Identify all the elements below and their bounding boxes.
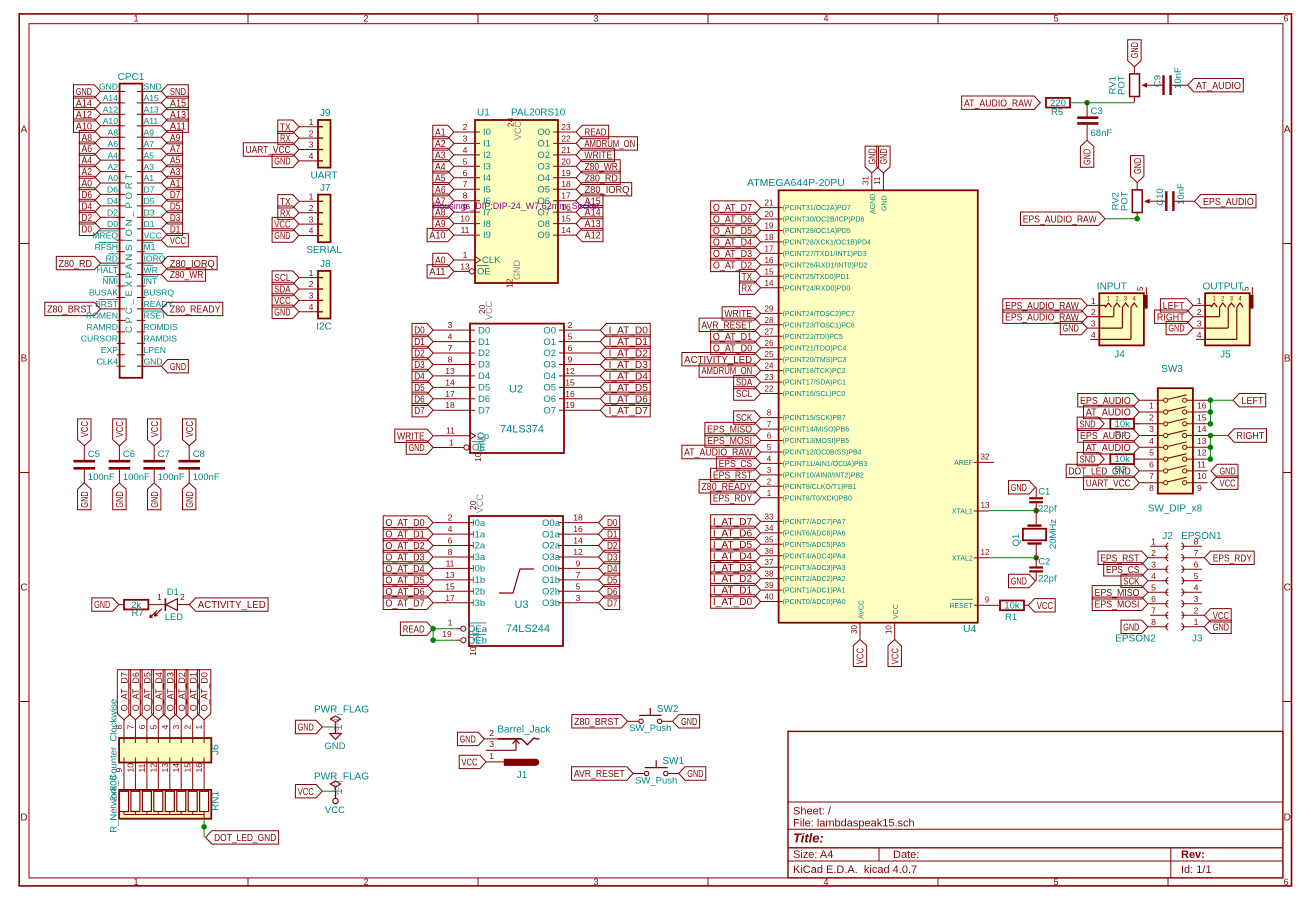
CPC1 pin D6 (left) [79,185,125,202]
svg-text:POT: POT [1117,75,1128,95]
svg-text:12: 12 [573,547,583,557]
svg-text:(PCINT28/XCK1/OC1B)PD4: (PCINT28/XCK1/OC1B)PD4 [783,240,871,247]
svg-text:6: 6 [1283,14,1288,24]
svg-text:16: 16 [1197,401,1207,411]
U4 pin 40 PA0 (I_AT_D0) [711,593,846,609]
U4 pin 34 PA6 (I_AT_D6) [711,524,846,540]
U2 pin 6 O2 (I_AT_D2) [543,343,650,360]
J6 pin 13 to RN1 [160,758,170,792]
svg-text:8: 8 [767,409,772,418]
svg-text:LED: LED [165,612,184,623]
svg-text:(PCINT2/ADC2)PA2: (PCINT2/ADC2)PA2 [783,576,846,583]
SW3 element 3 [1134,418,1208,434]
U4 pin 1 PB0 (EPS_RDY) [711,489,852,505]
CPC1 pin A12 (left) [74,105,126,122]
svg-text:2: 2 [309,203,314,213]
label AT_AUDIO [1188,79,1244,92]
svg-text:11: 11 [446,426,455,436]
U1 pin 5 I3 (A4) [433,156,491,173]
svg-text:GND: GND [170,362,186,373]
svg-text:C1: C1 [1038,486,1050,497]
svg-text:VCC: VCC [144,230,162,240]
connector CPC1 body [118,72,145,378]
svg-text:O5: O5 [543,383,556,394]
svg-text:25: 25 [765,350,774,359]
label EPS_AUDIO_RAW and wire [1021,212,1140,225]
svg-text:4: 4 [767,454,772,463]
CPC1 pin A3 (right) [137,162,183,178]
svg-text:I3a: I3a [472,552,486,563]
svg-text:6: 6 [1283,877,1288,887]
svg-text:5: 5 [1053,877,1058,887]
svg-text:GND: GND [1063,324,1079,335]
U1 pin 4 I2 (A3) [433,145,491,162]
U3 pin 6 I2a (O_AT_D2) [383,536,486,553]
svg-text:Barrel_Jack: Barrel_Jack [497,725,551,736]
svg-text:16: 16 [573,524,583,534]
J6 pin 16 to RN1 [194,758,204,792]
U4 pin 31 AGND (GND label) [862,146,879,214]
svg-text:J3: J3 [1192,634,1203,645]
svg-text:10k: 10k [1004,601,1020,612]
U2 hidden power pin GND 10 [473,432,486,463]
svg-text:O1: O1 [543,337,556,348]
svg-text:RFSH: RFSH [95,242,118,252]
svg-text:Id: 1/1: Id: 1/1 [1181,864,1212,876]
svg-text:2: 2 [363,877,368,887]
U2 pin 9 O3 (I_AT_D3) [543,355,650,372]
svg-text:(PCINT24/TOSC2)PC7: (PCINT24/TOSC2)PC7 [783,311,855,318]
svg-text:11: 11 [1197,459,1206,469]
svg-text:SW2: SW2 [657,704,679,715]
svg-text:3: 3 [1197,319,1202,329]
svg-text:I2: I2 [483,150,491,161]
J6 pin 6 (O_AT_D5) [137,670,154,743]
connector J5 OUTPUT body [1203,281,1250,360]
U4 pin 33 PA7 (I_AT_D7) [711,512,846,528]
svg-text:CLK4: CLK4 [97,356,119,366]
resistor R7 2k [119,600,149,619]
svg-text:A13: A13 [144,105,160,115]
svg-text:12: 12 [981,548,990,557]
svg-text:VCC: VCC [890,648,901,664]
svg-text:6: 6 [137,725,147,730]
J6 pin 7 (O_AT_D6) [125,670,142,743]
J4 pin 5 sleeve [1136,286,1147,308]
svg-text:(PCINT9/CLKO/T1)PB1: (PCINT9/CLKO/T1)PB1 [783,484,857,491]
svg-text:O8: O8 [537,219,550,230]
svg-text:A12: A12 [585,231,602,242]
svg-text:15: 15 [565,377,575,387]
svg-text:Housings_DIP:DIP-24_W7.62mm_So: Housings_DIP:DIP-24_W7.62mm_Socket [433,201,600,211]
svg-text:Z80_WR: Z80_WR [170,270,204,281]
J3 pin 5 right [1182,571,1203,585]
svg-text:11: 11 [873,176,882,185]
svg-text:40: 40 [765,593,774,602]
svg-text:O2: O2 [537,150,550,161]
svg-text:(PCINT29/OC1A)PD5: (PCINT29/OC1A)PD5 [783,228,851,235]
svg-text:J6: J6 [211,744,222,755]
U4 pin 19 PD5 (O_AT_D5) [711,222,851,238]
wire READ to OEa/OEb [430,626,455,643]
U3 pin 4 I1a (O_AT_D1) [383,524,486,541]
svg-text:I5: I5 [483,184,491,195]
svg-text:VCC: VCC [461,758,477,769]
CPC1 pin GND (left) [74,82,126,99]
U4 pin 23 PC1 (SDA) [734,373,847,389]
potentiometer RV2 POT [1110,156,1159,219]
svg-text:21: 21 [561,145,571,155]
svg-text:7: 7 [767,420,772,429]
svg-text:38: 38 [765,570,774,579]
svg-text:D6: D6 [107,185,118,195]
svg-text:B: B [1284,354,1291,365]
U2 pin 16 O6 (I_AT_D6) [543,389,650,406]
svg-text:RIGHT: RIGHT [1236,431,1264,442]
U3 pin 17 I3b (O_AT_D7) [383,593,485,610]
svg-text:(PCINT21/TDO)PC4: (PCINT21/TDO)PC4 [783,345,847,352]
svg-text:O_AT_D7: O_AT_D7 [385,598,425,609]
CPC1 pin A15 (right) [137,93,189,110]
svg-text:I0a: I0a [472,518,486,529]
power flag PWR_FLAG (GND) [295,705,369,734]
svg-text:12: 12 [1197,448,1207,458]
svg-text:20: 20 [468,500,478,510]
svg-text:74LS374: 74LS374 [500,424,544,436]
J6 pin 15 to RN1 [183,758,193,792]
svg-text:1: 1 [194,725,204,730]
svg-text:19: 19 [565,400,575,410]
svg-text:19: 19 [765,222,774,231]
svg-text:(PCINT30/OC2B/ICP)PD6: (PCINT30/OC2B/ICP)PD6 [783,217,865,224]
U1 hidden power pin VCC 24 [506,117,524,140]
svg-text:8: 8 [1149,483,1154,493]
svg-text:ROMEN: ROMEN [86,311,118,321]
power symbol VCC [325,791,345,816]
svg-text:6: 6 [1194,559,1199,569]
svg-text:(PCINT26/RXD1/INT0)PD2: (PCINT26/RXD1/INT0)PD2 [783,263,868,270]
svg-text:1: 1 [309,268,314,278]
svg-text:O0: O0 [543,325,556,336]
J6 pin 10 to RN1 [125,758,135,792]
svg-text:I2C: I2C [316,321,332,332]
svg-text:(PCINT25/TXD0)PD1: (PCINT25/TXD0)PD1 [783,274,850,281]
capacitor C6 100nF [109,419,150,510]
svg-text:1: 1 [157,592,162,602]
U1 pin 7 I5 (A6) [433,179,491,196]
svg-text:RN1: RN1 [211,791,222,811]
svg-text:D7: D7 [607,598,618,609]
connector J9 body [310,108,337,181]
svg-text:RAMRD: RAMRD [86,322,118,332]
CPC1 pin GND (right) [137,356,189,373]
svg-text:24: 24 [765,362,774,371]
svg-text:D5: D5 [478,383,490,394]
svg-text:GND: GND [1213,622,1229,633]
svg-text:O7: O7 [543,405,556,416]
svg-text:GND: GND [144,356,163,366]
svg-text:O3: O3 [537,162,550,173]
switch SW1 SW_Push [572,756,706,786]
svg-text:2: 2 [1194,605,1199,615]
J2 pin 4 left (SCK) [1121,571,1168,588]
svg-text:I_AT_D0: I_AT_D0 [713,597,753,608]
svg-text:A1: A1 [144,173,155,183]
J5 pin 3 (GND) [1166,319,1205,335]
svg-text:O1a: O1a [542,529,561,540]
svg-text:5: 5 [767,443,772,452]
svg-text:I1a: I1a [472,529,486,540]
CPC1 pin ROMDIS (right) [137,322,178,332]
svg-text:32: 32 [981,452,990,461]
svg-text:23: 23 [765,373,774,382]
svg-text:4: 4 [1149,436,1154,446]
capacitor C3 68nF [1077,103,1112,168]
svg-text:17: 17 [445,593,455,603]
capacitor C1 22pf [1009,481,1057,525]
U4 pin 26 PC4 (O_AT_D0) [711,339,847,355]
CPC1 pin D4 (left) [79,196,125,213]
svg-text:AGND: AGND [870,194,877,214]
svg-text:2: 2 [1151,548,1156,558]
label GND (R7) [92,598,119,611]
U1 pin 14 O9 (A12) [537,225,603,242]
svg-text:R1: R1 [1005,612,1017,623]
svg-text:U1: U1 [477,108,490,119]
U2 pin 18 D7 [412,400,490,417]
svg-text:A11: A11 [429,267,446,278]
U2 pin 12 O4 (I_AT_D4) [543,366,650,383]
U2 pin 14 D5 [412,377,490,394]
svg-text:5: 5 [148,725,158,730]
svg-text:1: 1 [1151,536,1156,546]
svg-text:Z80_RD: Z80_RD [59,259,93,270]
svg-text:(PCINT15/SCK)PB7: (PCINT15/SCK)PB7 [783,415,846,422]
svg-text:13: 13 [445,366,455,376]
svg-text:O1b: O1b [542,575,560,586]
svg-text:O0a: O0a [542,518,561,529]
svg-text:(PCINT7/ADC7)PA7: (PCINT7/ADC7)PA7 [783,519,846,526]
svg-text:(PCINT17/SDA)PC1: (PCINT17/SDA)PC1 [783,380,847,387]
svg-text:R5: R5 [1051,107,1063,118]
U2 pin 5 O1 (I_AT_D1) [543,332,650,349]
svg-text:I2b: I2b [472,587,485,598]
svg-text:GND: GND [274,231,290,242]
svg-text:XTAL2: XTAL2 [952,555,973,562]
svg-text:(PCINT1/ADC1)PA1: (PCINT1/ADC1)PA1 [783,588,846,595]
U3 pin 15 I2b (O_AT_D6) [383,581,485,598]
CPC1 pin NMI (left) [102,276,125,286]
svg-text:4: 4 [309,226,314,236]
svg-text:GND: GND [1168,324,1184,335]
svg-text:(PCINT24/RXD0)PD0: (PCINT24/RXD0)PD0 [783,285,851,292]
U1 pin 19 O4 (Z80_RD) [537,168,620,185]
svg-text:J4: J4 [1114,350,1125,361]
svg-text:GND: GND [99,82,118,92]
svg-text:INT: INT [144,276,159,286]
svg-text:U4: U4 [963,623,977,635]
svg-text:I2a: I2a [472,541,486,552]
svg-text:2: 2 [767,477,772,486]
svg-text:15: 15 [1197,412,1207,422]
svg-text:37: 37 [765,558,774,567]
svg-text:7: 7 [463,179,468,189]
U1 pin 22 O1 (AMDRUM_ON) [537,133,637,150]
svg-text:VCC: VCC [115,421,126,437]
CPC1 pin A13 (right) [137,105,189,122]
svg-text:SND: SND [1080,455,1096,466]
svg-text:O3a: O3a [542,552,561,563]
CPC1 pin BUSAK (left) [89,288,125,298]
J7 pin 2 (RX) [278,203,323,220]
svg-text:7: 7 [1194,548,1199,558]
svg-text:15: 15 [445,581,455,591]
svg-text:3: 3 [309,291,314,301]
wire XTAL1 to crystal [989,508,1039,514]
J2 pin 8 left (GND) [1121,617,1168,634]
svg-text:C10: C10 [1155,188,1166,205]
svg-text:I1: I1 [483,139,491,150]
svg-text:6: 6 [568,343,573,353]
connector J8 body [316,259,332,332]
svg-text:D5: D5 [144,196,155,206]
svg-text:1: 1 [767,489,772,498]
svg-text:MREQ: MREQ [92,230,118,240]
J5 pin 2 (RIGHT) [1155,307,1206,323]
J3 pin 2 right (VCC) [1182,605,1232,622]
CPC1 pin D3 (right) [137,208,183,225]
U4 pin 36 PA4 (I_AT_D4) [711,547,846,563]
J1 pin 3 switch [486,739,519,750]
U2 pin 2 O0 (I_AT_D0) [543,320,650,337]
capacitor C9 10nF [1152,67,1187,95]
svg-text:A10: A10 [103,116,119,126]
svg-text:C6: C6 [123,449,135,460]
svg-text:SW_Push: SW_Push [635,775,677,786]
svg-text:I8: I8 [483,219,491,230]
svg-text:3: 3 [1194,594,1199,604]
U3 pin 13 I1b (O_AT_D5) [383,570,485,587]
svg-text:(PCINT4/ADC4)PA4: (PCINT4/ADC4)PA4 [783,553,846,560]
svg-text:1: 1 [1197,296,1202,306]
svg-text:D3: D3 [478,360,490,371]
svg-text:(PCINT13/MOSI)PB5: (PCINT13/MOSI)PB5 [783,438,850,445]
svg-text:4: 4 [309,302,314,312]
svg-text:GND: GND [881,195,888,211]
svg-text:AVCC: AVCC [858,600,865,619]
svg-text:4: 4 [823,877,828,887]
svg-text:Sheet: /: Sheet: / [793,806,832,818]
svg-text:CURSOR: CURSOR [81,334,118,344]
svg-text:100nF: 100nF [88,472,115,483]
IC U4 ATMEGA644P-20PU body [747,177,978,635]
U1 pin 3 I1 (A2) [433,133,491,150]
U3 hidden power pin VCC 20 [468,493,485,513]
svg-text:VCC: VCC [325,805,345,816]
svg-text:2: 2 [1091,307,1096,317]
svg-text:SW_Push: SW_Push [629,723,671,734]
svg-text:HALT: HALT [97,265,119,275]
svg-text:D2: D2 [478,348,490,359]
svg-text:J5: J5 [1220,350,1231,361]
U4 pin 37 PA3 (I_AT_D3) [711,558,846,574]
U4 pin 13 XTAL1 [952,501,990,516]
svg-text:(PCINT3/ADC3)PA3: (PCINT3/ADC3)PA3 [783,565,846,572]
svg-text:EXP: EXP [101,345,118,355]
svg-text:29: 29 [765,304,774,313]
svg-text:Z80_BRST: Z80_BRST [574,717,619,728]
U3 pin 1 OEa inverted (READ) [400,618,487,636]
svg-text:OEb: OEb [468,635,487,646]
CPC1 pin HALT (left) [97,265,125,275]
svg-text:20MHz: 20MHz [1048,519,1059,549]
svg-text:35: 35 [765,535,774,544]
svg-text:AVR_RESET: AVR_RESET [574,769,625,780]
svg-text:XTAL1: XTAL1 [952,509,973,516]
IC U2 74LS374 body [470,324,564,453]
svg-text:10: 10 [125,763,135,773]
svg-text:RAMDIS: RAMDIS [144,334,178,344]
J2 pin 2 left (EPS_RST) [1098,548,1168,565]
svg-text:EPS_RDY: EPS_RDY [1213,553,1252,564]
SW3 element 2 [1084,405,1208,422]
svg-text:Z80_READY: Z80_READY [170,305,221,316]
svg-text:SW1: SW1 [662,756,684,767]
svg-text:GND: GND [80,491,91,507]
SW3 element 4 [1078,429,1208,446]
svg-text:A2: A2 [107,162,118,172]
svg-text:(PCINT6/ADC6)PA6: (PCINT6/ADC6)PA6 [783,531,846,538]
U4 pin 38 PA2 (I_AT_D2) [711,570,846,586]
svg-text:EPSON1: EPSON1 [1181,531,1222,542]
svg-text:36: 36 [765,547,774,556]
U4 pin 8 PB7 (SCK) [734,409,846,425]
svg-text:Size: A4: Size: A4 [793,849,833,861]
svg-text:4: 4 [823,14,828,24]
svg-text:J7: J7 [320,183,331,194]
svg-text:24: 24 [506,117,516,127]
U1 pin 13 OE inverted (A11) [427,261,491,278]
svg-text:3: 3 [767,466,772,475]
svg-text:BUSRQ: BUSRQ [144,288,175,298]
connector J4 INPUT body [1097,281,1144,360]
CPC1 pin INT (right) [137,276,158,286]
svg-text:4: 4 [1194,582,1199,592]
connector J1 Barrel_Jack [497,725,551,782]
U4 pin 17 PD3 (O_AT_D3) [711,244,867,260]
U2 pin 15 O5 (I_AT_D5) [543,377,650,394]
CPC1 pin BUSRQ (right) [137,288,175,298]
svg-text:VCC: VCC [185,421,196,437]
svg-text:5: 5 [463,156,468,166]
svg-text:LPEN: LPEN [144,345,166,355]
svg-text:1: 1 [448,618,453,628]
svg-text:21: 21 [765,199,774,208]
svg-text:100nF: 100nF [123,472,150,483]
svg-text:I_AT_D7: I_AT_D7 [609,406,649,417]
U4 pin 32 AREF [954,452,994,467]
CPC1 pin A0 (left) [79,173,125,190]
svg-text:VCC: VCC [856,648,867,664]
CPC1 pin D0 (left) [79,219,125,236]
U2 hidden power pin VCC 20 [477,300,494,320]
U4 pin 39 PA1 (I_AT_D1) [711,581,846,597]
svg-text:5: 5 [568,332,573,342]
svg-text:19: 19 [442,629,452,639]
svg-text:8: 8 [448,355,453,365]
U4 pin 14 PD0 (RX) [739,279,850,295]
svg-text:UART_VCC: UART_VCC [1086,478,1131,489]
